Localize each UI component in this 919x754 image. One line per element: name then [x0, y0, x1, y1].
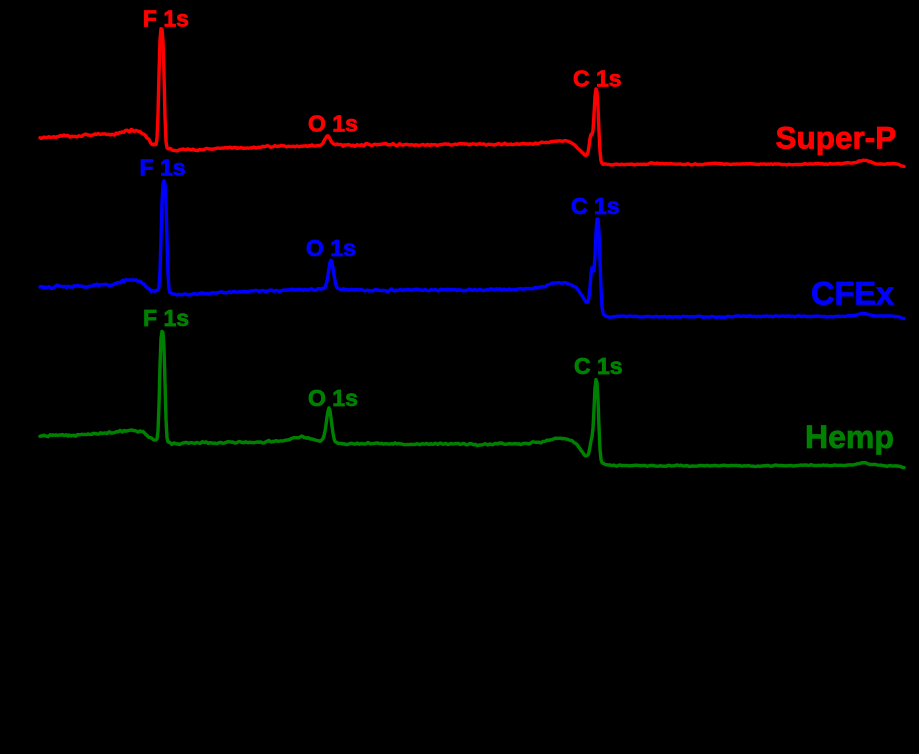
svg-text:Hemp: Hemp	[805, 419, 894, 455]
svg-text:F 1s: F 1s	[140, 155, 186, 181]
svg-text:O 1s: O 1s	[306, 235, 356, 261]
svg-text:CFEx: CFEx	[811, 276, 894, 312]
svg-text:O 1s: O 1s	[308, 385, 358, 411]
svg-text:Super-P: Super-P	[776, 120, 897, 156]
svg-text:O 1s: O 1s	[308, 110, 358, 136]
svg-text:C 1s: C 1s	[574, 353, 623, 379]
svg-text:F 1s: F 1s	[143, 6, 189, 32]
svg-text:F 1s: F 1s	[143, 305, 189, 331]
trace Hemp (green XPS survey spectrum)	[40, 331, 904, 467]
trace CFEx (blue XPS survey spectrum)	[40, 181, 904, 319]
svg-text:C 1s: C 1s	[571, 193, 620, 219]
trace Super-P (red XPS survey spectrum)	[40, 29, 904, 167]
svg-text:C 1s: C 1s	[573, 66, 622, 92]
